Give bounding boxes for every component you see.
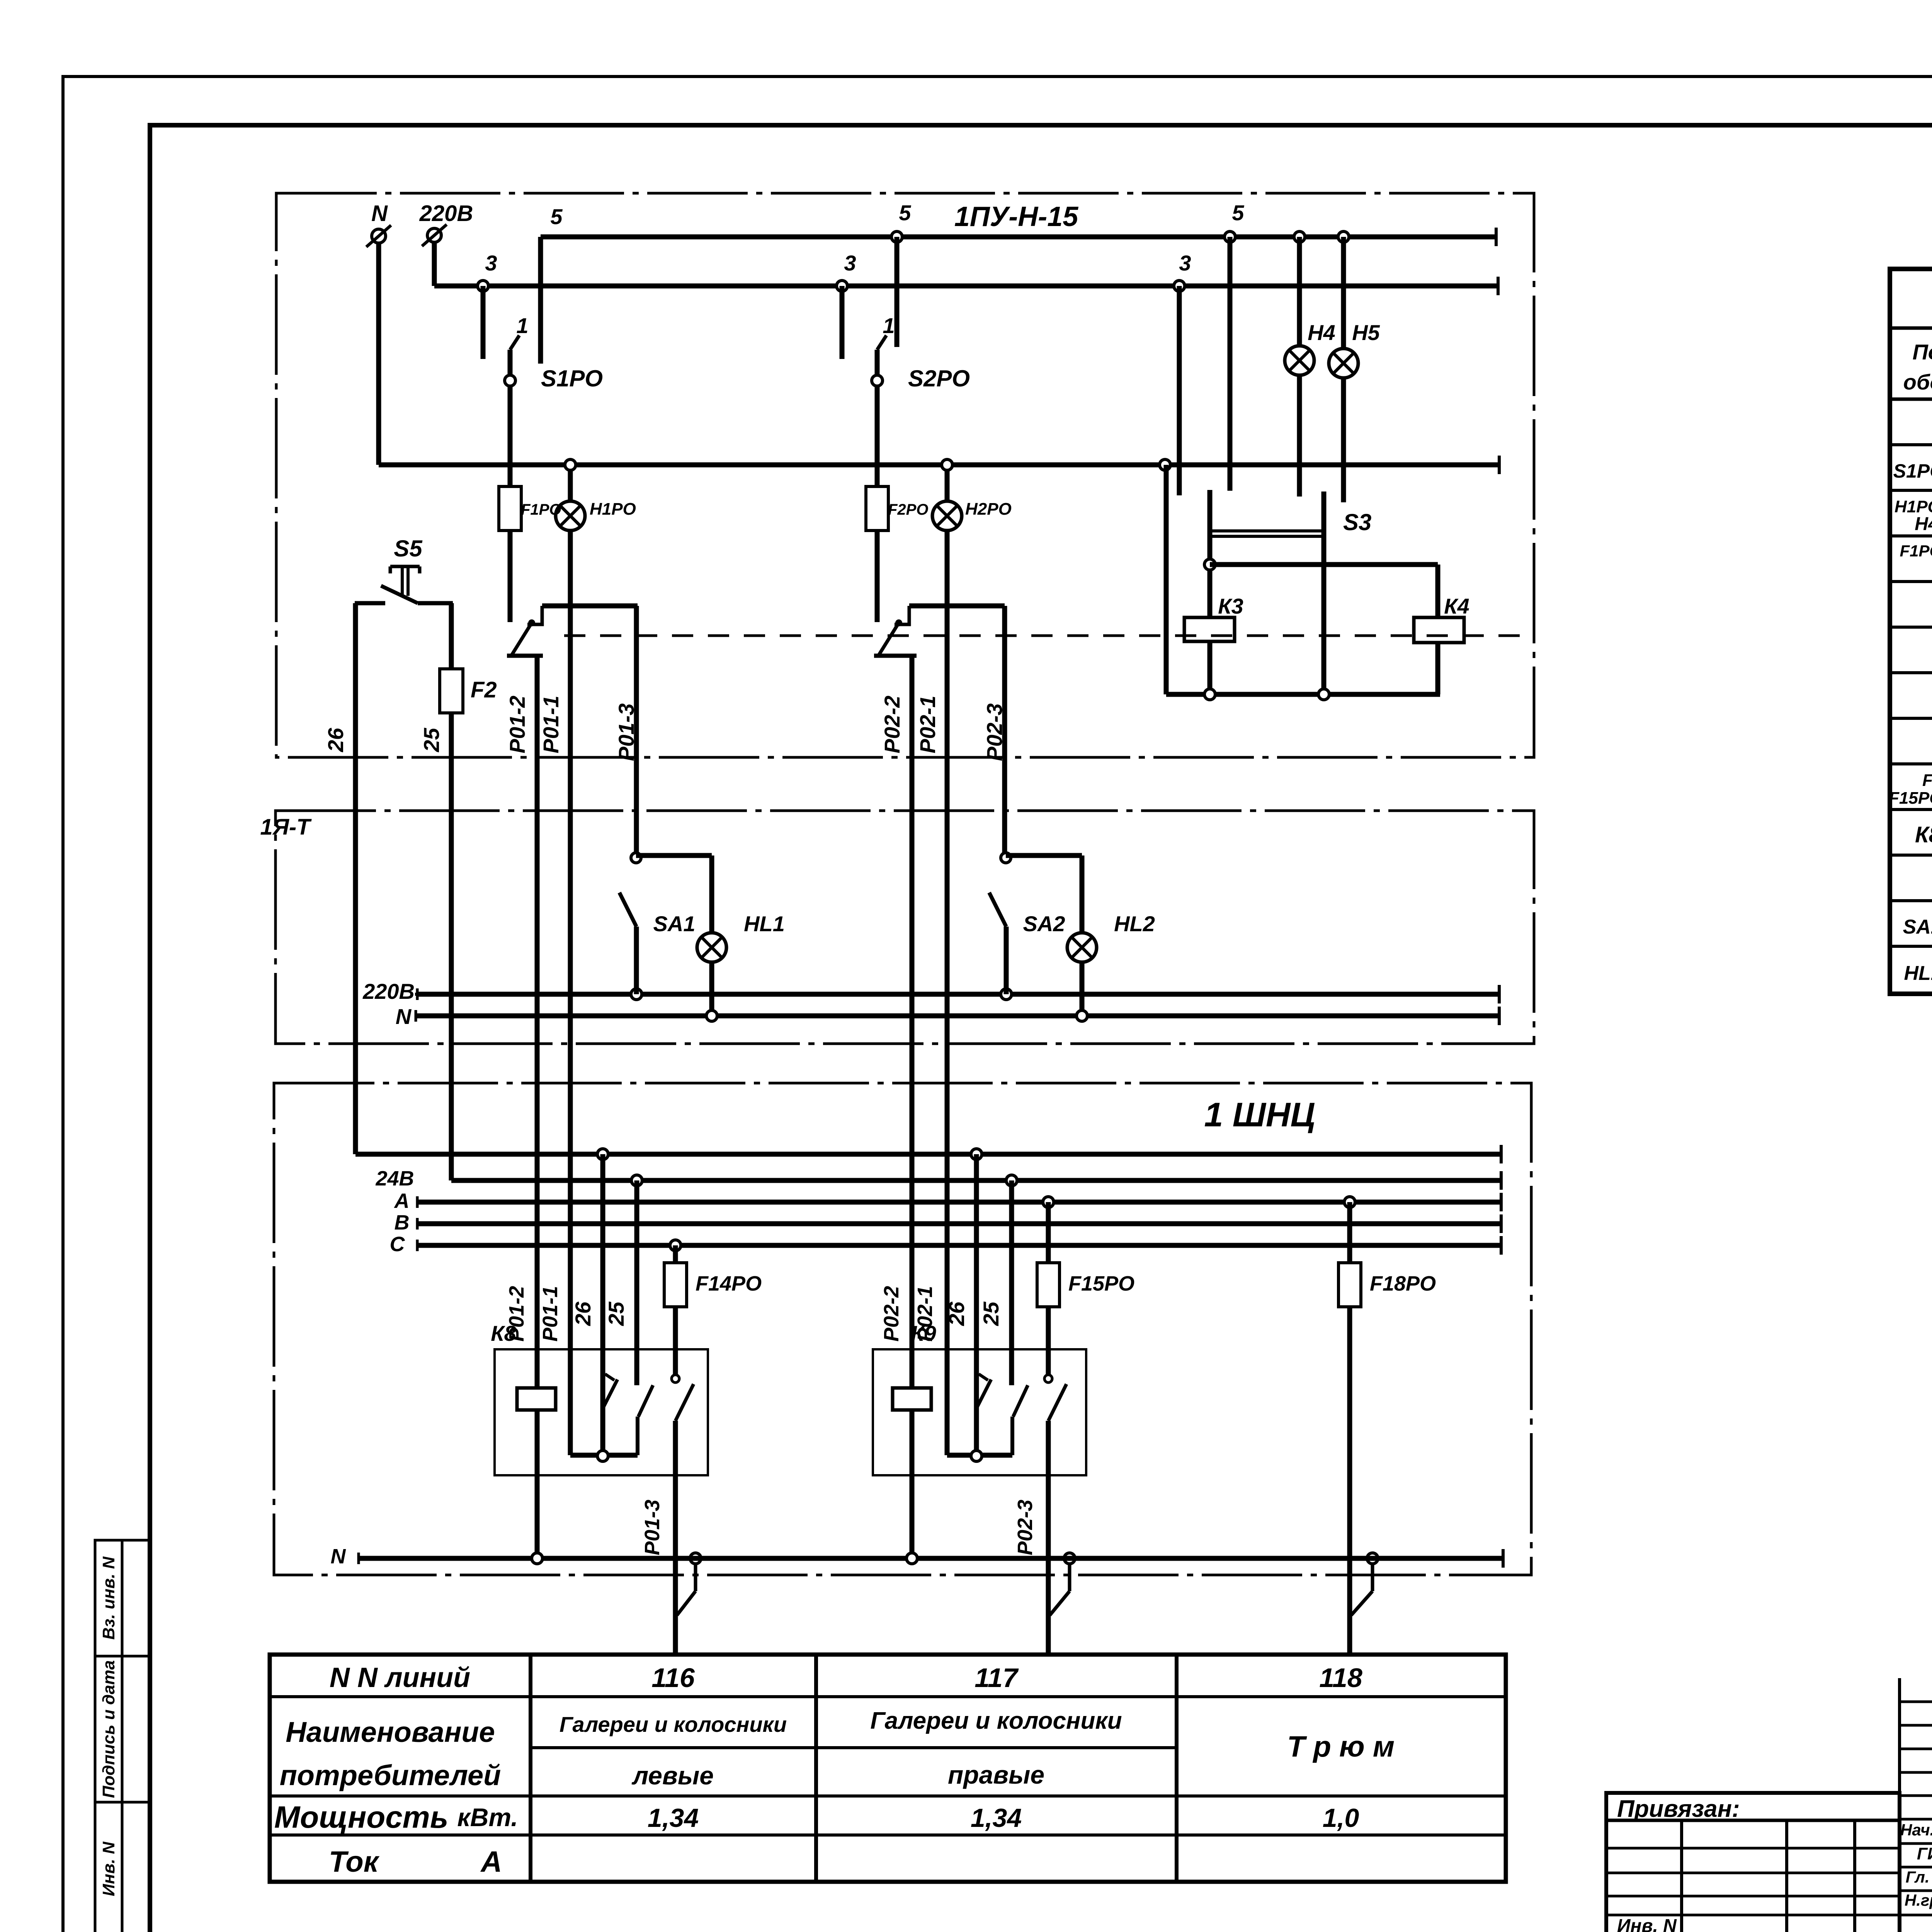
lamp HL1 — [697, 912, 785, 962]
wire H4 stub — [1297, 375, 1302, 497]
svg-text:25: 25 — [979, 1301, 1003, 1326]
wire 25 drop into K8 — [604, 1180, 637, 1385]
svg-text:Н4, Н5: Н4, Н5 — [1915, 514, 1932, 534]
lines table header NN linij — [330, 1662, 470, 1693]
parts row SA1 SA2 — [1903, 910, 1932, 939]
svg-text:HL1÷HL2: HL1÷HL2 — [1904, 962, 1932, 985]
blade to N bus at 118 — [1351, 1553, 1378, 1615]
wire HL2 to N — [1077, 962, 1087, 1021]
svg-text:1: 1 — [883, 313, 895, 338]
svg-text:Инв. N: Инв. N — [1617, 1916, 1677, 1932]
wire P01-3 vertical to SA1 — [614, 606, 638, 853]
svg-text:S1PO: S1PO — [541, 366, 603, 391]
node wire25 tap K9 — [1006, 1175, 1017, 1186]
fuse F2PO — [866, 486, 928, 531]
svg-text:P02-1: P02-1 — [913, 1286, 937, 1342]
svg-text:SA2: SA2 — [1023, 912, 1065, 936]
fuse F2 — [440, 669, 497, 713]
svg-text:А: А — [480, 1845, 502, 1878]
blade to N bus at 117 — [1050, 1553, 1075, 1615]
node F15PO tap on bus A — [1043, 1197, 1054, 1207]
svg-text:Нач. отд.: Нач. отд. — [1900, 1821, 1932, 1839]
svg-text:N: N — [396, 1004, 412, 1029]
svg-text:Подпись и дата: Подпись и дата — [99, 1660, 118, 1798]
signature row gl spec — [1906, 1866, 1932, 1886]
svg-text:P02-2: P02-2 — [880, 696, 904, 753]
node 3 at S3 drop — [1174, 251, 1191, 291]
contactor K9 coil — [893, 1388, 931, 1410]
fuse F15PO — [1037, 1202, 1134, 1307]
lamp H2PO — [932, 500, 1012, 531]
contact K9 NO blade — [1012, 1385, 1028, 1455]
left margin stamp box Inv.N — [95, 1802, 150, 1932]
wire line 118 down — [1347, 1306, 1352, 1655]
cell galleries left — [560, 1712, 787, 1790]
svg-text:S3: S3 — [1343, 509, 1371, 535]
svg-text:116: 116 — [651, 1663, 695, 1693]
node wire25 tap K8 — [631, 1175, 642, 1186]
wire bottom return — [1166, 689, 1440, 700]
node wire26 tap K9 — [971, 1149, 982, 1160]
svg-text:P02-3: P02-3 — [982, 703, 1007, 761]
signature grid — [1900, 1678, 1932, 1932]
wire stub from node 5 down — [1228, 237, 1233, 491]
label P01-2 lower — [505, 1286, 528, 1342]
svg-text:HL2: HL2 — [1114, 912, 1155, 936]
svg-text:F14PO: F14PO — [696, 1272, 762, 1295]
label 1PU-N-15 — [954, 201, 1079, 232]
wire line 117 down — [1014, 1421, 1048, 1655]
svg-text:К3: К3 — [1218, 594, 1243, 618]
button S5 — [355, 536, 453, 603]
bus 220V of 1Ya-T — [362, 979, 1499, 1003]
svg-text:F2PO: F2PO — [888, 501, 928, 518]
lamp HL2 — [1067, 912, 1155, 962]
blade to N bus at 116 — [677, 1553, 701, 1615]
parts row lamps — [1895, 497, 1932, 534]
lines table frame — [270, 1655, 1506, 1882]
svg-text:Наименование: Наименование — [286, 1716, 495, 1748]
wire line 5 horizontal — [541, 228, 1496, 246]
parts row HL1 HL2 — [1904, 957, 1932, 986]
wire 25 from S5 to fuse F2 — [449, 603, 454, 669]
parts table row lines — [1890, 445, 1932, 946]
svg-text:Мощность: Мощность — [274, 1800, 449, 1834]
node wire26 tap K8 — [597, 1149, 608, 1160]
wire fuse F1PO to contact — [508, 531, 513, 622]
svg-text:ГИП: ГИП — [1917, 1844, 1932, 1863]
relay K4 coil — [1414, 594, 1469, 643]
switch S1PO lower contact — [507, 606, 638, 656]
svg-text:Инв. N: Инв. N — [99, 1841, 118, 1896]
bus B — [395, 1211, 1502, 1234]
svg-text:3: 3 — [485, 251, 497, 275]
node K3 branch on N bus — [1160, 459, 1170, 470]
bus A — [394, 1189, 1502, 1213]
svg-text:Позиц.: Позиц. — [1913, 340, 1932, 364]
svg-text:N: N — [371, 201, 388, 226]
svg-text:P02-2: P02-2 — [880, 1286, 903, 1342]
switch S2PO pole wire 1 — [872, 313, 895, 486]
bus C — [390, 1233, 1502, 1256]
svg-text:H1PO: H1PO — [590, 500, 636, 519]
wire 26 vertical from S5 — [323, 603, 355, 1154]
parts table header row — [1890, 340, 1932, 399]
left attachment block — [1606, 1793, 1900, 1932]
svg-text:118: 118 — [1319, 1663, 1362, 1693]
lamp H1PO — [556, 500, 636, 531]
switch S2PO wire 3 stub — [840, 286, 845, 359]
K9 bottom bar — [947, 1451, 1012, 1461]
svg-text:Ток: Ток — [329, 1845, 380, 1878]
parts row S1PO S2PO — [1893, 453, 1932, 487]
label 1Ya-T — [260, 815, 312, 840]
signature row GIP — [1917, 1842, 1932, 1863]
svg-text:1Я-Т: 1Я-Т — [260, 815, 312, 840]
svg-text:P01-3: P01-3 — [614, 703, 638, 761]
svg-text:F14PO,: F14PO, — [1922, 771, 1932, 790]
wire 220V terminal drop — [432, 241, 437, 286]
wire H5 drop — [1341, 237, 1346, 349]
svg-text:P01-3: P01-3 — [641, 1500, 664, 1555]
label SA2 — [1023, 912, 1065, 936]
node F18PO tap on bus A — [1344, 1197, 1355, 1207]
svg-text:220В: 220В — [419, 201, 473, 226]
lines table power row — [274, 1800, 1359, 1834]
svg-text:5: 5 — [899, 201, 911, 225]
bus N of 1ShNTs — [331, 1545, 1503, 1568]
fuse F14PO — [664, 1245, 762, 1307]
fuse F1PO — [499, 486, 561, 531]
lines table verticals — [531, 1655, 1177, 1882]
lamp H5 — [1329, 320, 1380, 378]
wire K3 branch vertical — [1164, 465, 1169, 694]
svg-text:26: 26 — [944, 1301, 969, 1326]
wire K3 coil to bottom — [1207, 641, 1213, 694]
svg-text:S5: S5 — [394, 536, 423, 561]
svg-text:5: 5 — [1232, 201, 1244, 225]
parts row K8 K9 — [1915, 819, 1932, 848]
contact K8 NC blade — [603, 1374, 617, 1408]
wire stub from node 3 down — [1177, 286, 1182, 495]
wire P02-1 vertical — [915, 531, 947, 1455]
svg-text:кВт.: кВт. — [457, 1803, 518, 1832]
svg-text:правые: правые — [948, 1760, 1044, 1789]
contactor K8 coil — [517, 1388, 556, 1410]
svg-text:P02-3: P02-3 — [1014, 1500, 1037, 1555]
label P02-2 lower — [880, 1286, 903, 1342]
mechanical link dashed line — [564, 634, 1530, 637]
label Inv N bottom — [1617, 1916, 1677, 1932]
lamp H4 — [1285, 320, 1335, 375]
node H1PO tap on N bus — [565, 459, 576, 470]
fuse F18PO — [1338, 1202, 1436, 1307]
switch S1PO wire 3 stub — [481, 286, 486, 359]
svg-text:N: N — [331, 1545, 346, 1568]
label 1ShNTs — [1204, 1095, 1315, 1134]
signature row nach otd — [1900, 1818, 1932, 1839]
node P02-2 on N — [906, 1553, 917, 1564]
dash-dot enclosure 1Ya-T — [276, 811, 1534, 1044]
lines table consumers label — [280, 1716, 501, 1791]
node 3 at S2PO — [837, 251, 856, 291]
left margin stamp box Podpis i data — [95, 1656, 150, 1802]
wire 25 drop into K9 — [979, 1180, 1012, 1385]
svg-text:26: 26 — [323, 728, 348, 752]
svg-text:220В: 220В — [362, 979, 415, 1003]
parts table title — [1890, 279, 1932, 328]
svg-text:P01-2: P01-2 — [505, 1286, 528, 1342]
svg-text:Вз. инв. N: Вз. инв. N — [99, 1556, 118, 1639]
svg-text:26: 26 — [571, 1301, 595, 1326]
bus net26 top of 1ShNTs — [355, 1145, 1501, 1163]
switch S3 left pole wire — [1204, 490, 1215, 617]
svg-text:левые: левые — [631, 1761, 714, 1790]
bus 24V — [375, 1167, 1501, 1190]
node 5 label left — [550, 204, 563, 229]
contact F14PO NO — [672, 1306, 694, 1421]
contactor K8 box — [491, 1321, 708, 1475]
svg-text:H4: H4 — [1308, 320, 1335, 345]
svg-text:F1PO,F2PO: F1PO,F2PO — [1900, 542, 1932, 560]
svg-text:К8, К9: К8, К9 — [1915, 822, 1932, 847]
parts table frame — [1890, 269, 1932, 994]
switch S1PO pole wire 1 — [505, 313, 529, 486]
wire line 3 horizontal — [434, 277, 1498, 295]
switch S1PO wire 5 stub — [538, 237, 543, 364]
wire P02-2 through K9 to N — [910, 1410, 915, 1558]
svg-text:25: 25 — [604, 1301, 628, 1326]
terminal N input — [366, 201, 391, 247]
wire K4 coil to bottom — [1435, 643, 1440, 694]
label SA1 — [653, 912, 696, 936]
svg-text:SA1÷SA2: SA1÷SA2 — [1903, 916, 1932, 938]
svg-text:SA1: SA1 — [653, 912, 696, 936]
svg-text:1: 1 — [516, 313, 528, 338]
node F14PO tap on bus C — [670, 1240, 681, 1251]
contact K8 NO blade — [638, 1385, 653, 1455]
svg-text:К4: К4 — [1444, 594, 1469, 618]
svg-text:P01-2: P01-2 — [505, 696, 529, 753]
node H2PO tap on N bus — [942, 459, 952, 470]
label P02-1 lower — [913, 1286, 937, 1342]
svg-text:В: В — [395, 1211, 410, 1234]
node 5 at S3 drop — [1225, 201, 1244, 242]
wire P01-1 vertical — [539, 531, 570, 1455]
switch S2PO wire 5 stub — [895, 237, 900, 347]
wire to lamp H1PO — [568, 470, 573, 501]
svg-text:3: 3 — [1179, 251, 1191, 275]
wire HL2 drop — [1080, 855, 1085, 933]
node H4 tap — [1294, 231, 1305, 242]
switch S2PO lower contact — [874, 606, 1005, 656]
bus N of 1Ya-T — [396, 1004, 1499, 1029]
svg-text:1,34: 1,34 — [971, 1803, 1022, 1833]
svg-text:F15PO: F15PO — [1068, 1272, 1134, 1295]
svg-text:H5: H5 — [1352, 320, 1380, 345]
svg-text:P01-1: P01-1 — [539, 1286, 562, 1342]
svg-text:F15PO,P18PO: F15PO,P18PO — [1889, 789, 1932, 808]
label S2PO — [908, 366, 970, 391]
switch SA2 — [989, 853, 1082, 1000]
svg-text:HL1: HL1 — [744, 912, 785, 936]
svg-text:Привязан:: Привязан: — [1617, 1796, 1740, 1822]
K8 bottom bar — [570, 1451, 638, 1461]
wire 26 drop into K9 — [944, 1154, 976, 1455]
cell galleries right — [870, 1708, 1122, 1789]
svg-text:H1PO, H2PO: H1PO, H2PO — [1895, 497, 1932, 516]
switch S3 double bar — [1210, 509, 1371, 536]
wire fuse F2PO to contact — [875, 531, 880, 622]
svg-text:А: А — [394, 1189, 410, 1213]
wire from S3 node to K4 — [1210, 565, 1438, 617]
wire P01-2 through K8 to N — [535, 1410, 540, 1558]
lines table current row — [329, 1845, 502, 1878]
svg-text:1ПУ-Н-15: 1ПУ-Н-15 — [954, 201, 1079, 232]
parts row fuses PR — [1889, 771, 1932, 808]
relay K3 coil — [1184, 594, 1243, 641]
wire N terminal drop — [376, 242, 381, 465]
label Privyazan — [1617, 1796, 1740, 1822]
wire P01-2 vertical — [505, 656, 537, 1388]
signature row n gr in — [1905, 1890, 1932, 1909]
dash-dot enclosure 1ShNTs — [274, 1083, 1531, 1575]
contactor K9 box — [873, 1321, 1086, 1475]
node 5 at S2PO — [891, 201, 911, 242]
contact K9 NC blade — [976, 1374, 991, 1408]
wire to lamp H2PO — [945, 470, 950, 501]
lines table row lines — [270, 1697, 1506, 1835]
svg-text:P02-1: P02-1 — [915, 696, 940, 753]
svg-text:P01-1: P01-1 — [539, 696, 563, 753]
node 3 at S1PO — [478, 251, 497, 291]
svg-text:потребителей: потребителей — [280, 1759, 501, 1791]
wire 26 drop into K8 — [571, 1154, 603, 1455]
wire HL1 to N — [706, 962, 717, 1021]
label S1PO — [541, 366, 603, 391]
svg-text:1 ШНЦ: 1 ШНЦ — [1204, 1095, 1315, 1134]
svg-text:F18PO: F18PO — [1370, 1272, 1436, 1295]
wire 25 vertical — [419, 713, 451, 1180]
svg-text:Галереи и колосники: Галереи и колосники — [560, 1712, 787, 1736]
line number 118 — [1319, 1663, 1362, 1693]
svg-text:5: 5 — [550, 204, 563, 229]
svg-text:N N линий: N N линий — [330, 1662, 470, 1693]
cell tryum — [1287, 1730, 1395, 1763]
svg-text:Галереи и колосники: Галереи и колосники — [870, 1708, 1122, 1734]
svg-text:1,34: 1,34 — [648, 1803, 699, 1833]
wire line 116 down — [641, 1421, 675, 1655]
svg-text:24В: 24В — [375, 1167, 414, 1190]
svg-text:3: 3 — [844, 251, 856, 275]
parts row fuse inserts — [1900, 539, 1932, 582]
svg-text:F2: F2 — [471, 677, 497, 702]
svg-text:S2PO: S2PO — [908, 366, 970, 391]
svg-text:S1PO,S2PO: S1PO,S2PO — [1893, 460, 1932, 482]
svg-text:С: С — [390, 1233, 405, 1256]
svg-text:Т р ю м: Т р ю м — [1287, 1730, 1395, 1763]
svg-text:Н.гр. ин.: Н.гр. ин. — [1905, 1891, 1932, 1909]
svg-text:Гл. спец.: Гл. спец. — [1906, 1868, 1932, 1886]
node H5 tap — [1338, 231, 1349, 242]
wire P02-3 vertical to SA2 — [982, 606, 1007, 853]
svg-text:25: 25 — [419, 728, 444, 752]
line number 116 — [651, 1663, 695, 1693]
svg-text:обознач.: обознач. — [1903, 370, 1932, 394]
contact F15PO NO — [1044, 1306, 1066, 1421]
switch SA1 — [619, 853, 712, 1000]
wire HL1 drop — [709, 855, 714, 933]
dash-dot enclosure 1PU-N-15 — [276, 193, 1534, 757]
wire H4 drop — [1297, 237, 1302, 346]
label P01-1 lower — [539, 1286, 562, 1342]
svg-text:117: 117 — [975, 1663, 1019, 1693]
terminal 220V input — [419, 201, 473, 246]
node P01-2 on N — [532, 1553, 543, 1564]
wire N bus horizontal — [379, 456, 1499, 474]
wire H5 stub — [1341, 378, 1346, 502]
line number 117 — [975, 1663, 1019, 1693]
wire P02-2 vertical — [880, 656, 912, 1388]
svg-text:H2PO: H2PO — [965, 500, 1012, 519]
left margin stamp box Vz.inv.N — [95, 1540, 150, 1656]
switch S3 right pole wire — [1321, 492, 1327, 694]
svg-text:1,0: 1,0 — [1323, 1803, 1359, 1833]
